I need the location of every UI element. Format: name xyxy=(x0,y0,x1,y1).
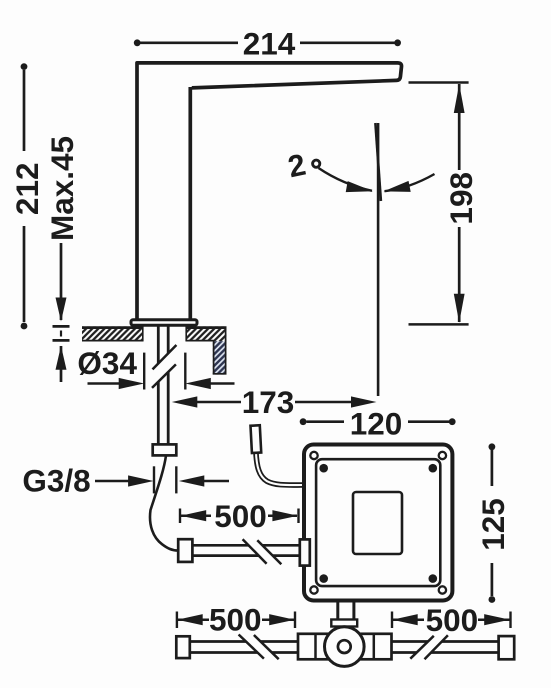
svg-text:198: 198 xyxy=(443,172,479,225)
svg-text:212: 212 xyxy=(9,163,45,216)
svg-text:120: 120 xyxy=(350,405,403,441)
svg-text:173: 173 xyxy=(242,384,295,420)
svg-text:214: 214 xyxy=(243,26,296,62)
svg-text:500: 500 xyxy=(426,602,479,638)
svg-text:500: 500 xyxy=(209,601,262,637)
svg-text:Ø34: Ø34 xyxy=(77,345,137,381)
svg-text:Max.45: Max.45 xyxy=(44,136,80,241)
svg-text:125: 125 xyxy=(475,498,511,551)
svg-text:G3/8: G3/8 xyxy=(22,462,90,498)
svg-text:500: 500 xyxy=(214,498,267,534)
